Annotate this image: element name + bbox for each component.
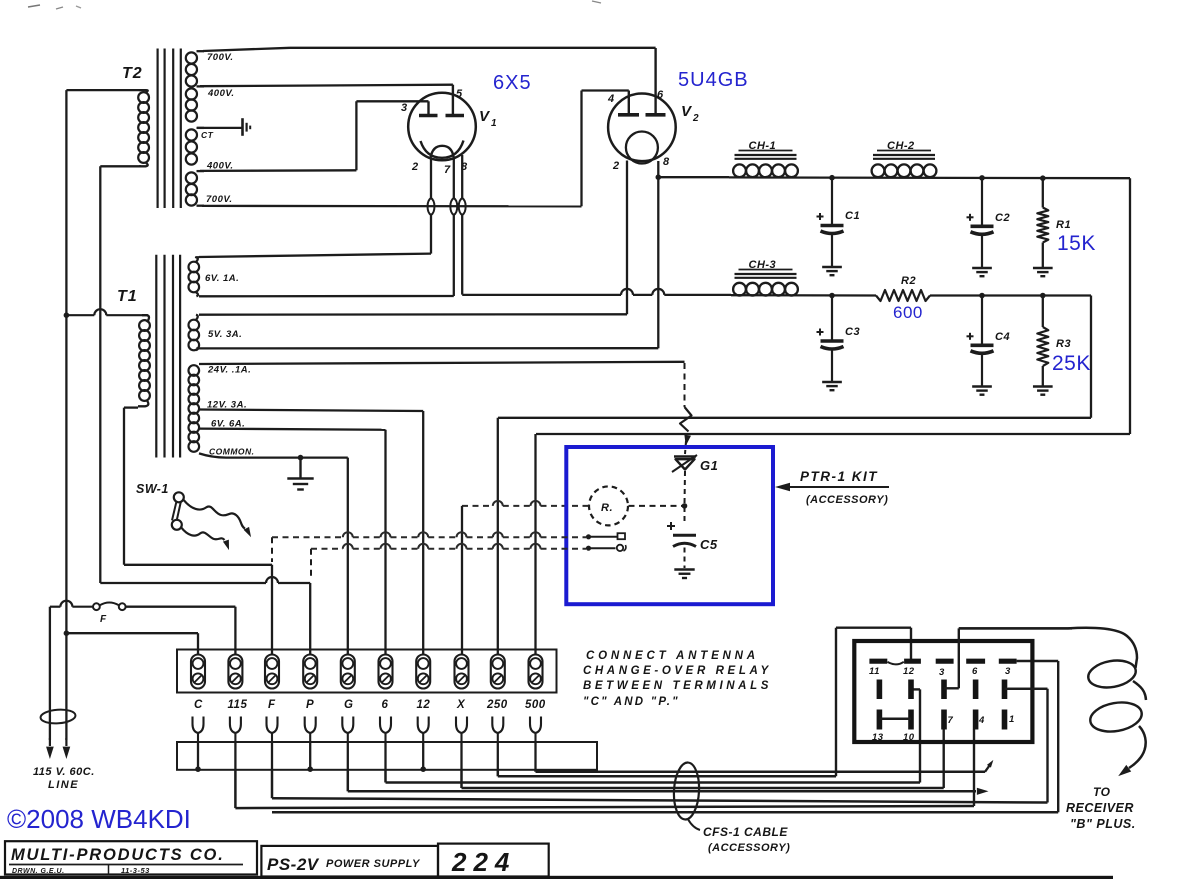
label G1 (700, 458, 718, 473)
tube V1 heater (421, 141, 464, 158)
choke CH-1 (733, 140, 798, 177)
junction dot common ground (298, 455, 304, 461)
cable box verticals (198, 742, 536, 770)
wire rail2 R2 right (930, 294, 1091, 296)
svg-text:"B" PLUS.: "B" PLUS. (1070, 817, 1136, 831)
wire V2 pin8 to 5V3A bottom (199, 347, 658, 349)
wire 500 to cable (536, 759, 996, 772)
junction dot R3 (1040, 293, 1046, 299)
wire fuse to 115 terminal (126, 607, 236, 654)
wire 250V right frame (498, 296, 1091, 418)
node CT tap (197, 128, 214, 140)
label 15K blue (1057, 232, 1096, 255)
node 400V lower tap (197, 160, 234, 171)
capacitor C2 (967, 178, 1011, 267)
hop V1 pin7 (450, 198, 457, 215)
wire dashed F to upper contact (272, 532, 586, 562)
note connect antenna (583, 650, 772, 708)
transformer T2 label (122, 65, 143, 82)
transformer T1 label (117, 288, 138, 305)
transformer T1 6V1A winding (189, 257, 200, 296)
svg-text:11-3-53: 11-3-53 (121, 866, 150, 875)
label TO RECEIVER B PLUS (1066, 785, 1136, 831)
svg-text:4: 4 (607, 93, 615, 105)
wire G into cable (348, 770, 989, 795)
wire 500V right frame (536, 178, 1130, 434)
svg-text:CT: CT (201, 130, 214, 140)
wire to C terminal (66, 633, 198, 654)
label 6V 6A (211, 419, 245, 430)
cable CFS-1 loop (673, 762, 701, 830)
svg-text:250: 250 (486, 699, 508, 711)
wire dashed node to C5 (684, 507, 686, 522)
node 700V top tap (197, 51, 234, 63)
label 5U4GB blue (678, 69, 749, 91)
label C5 (700, 537, 718, 552)
connector block outline (854, 641, 1032, 742)
wire T1 primary to F (124, 565, 272, 654)
junction dot C3 (829, 293, 835, 299)
svg-text:500: 500 (525, 699, 546, 711)
accessory box blue (566, 447, 773, 604)
wire V1 pin2 to 6V1A (199, 254, 431, 257)
scan marks (28, 1, 601, 9)
svg-text:MULTI-PRODUCTS CO.: MULTI-PRODUCTS CO. (11, 846, 225, 864)
wire top HV rail (203, 48, 656, 51)
svg-text:G: G (344, 699, 353, 711)
svg-text:24V. .1A.: 24V. .1A. (207, 365, 251, 376)
svg-text:5V. 3A.: 5V. 3A. (208, 329, 242, 340)
bottom edge bar (0, 876, 1113, 879)
capacitor C1 (817, 178, 861, 267)
svg-text:P: P (306, 699, 314, 711)
node 700V bottom tap (197, 194, 233, 206)
wire V1 pin7 down (453, 158, 455, 296)
wire CH-3 left (462, 289, 731, 295)
tube V1 pin labels (401, 88, 468, 176)
wire T1 primary top entry (66, 309, 148, 315)
wire top pin3 run (272, 661, 1058, 812)
junction dot C2 (979, 175, 985, 181)
wire dashed P to lower contact (311, 544, 586, 580)
wire dashed G1 to node (684, 471, 687, 504)
label 6V 1A (205, 273, 239, 284)
ground C5 (674, 570, 694, 579)
svg-text:F: F (100, 614, 107, 625)
relay contact upper (586, 533, 625, 539)
wire B plus riser (959, 628, 1072, 688)
label copyright blue (7, 804, 191, 834)
wire T2 primary bottom (100, 165, 141, 167)
svg-text:3: 3 (939, 667, 945, 678)
wire X terminal drop (461, 506, 463, 654)
switch SW-1 wiper 2 (181, 528, 232, 552)
terminal strip box (177, 650, 557, 693)
svg-text:115 V. 60C.: 115 V. 60C. (33, 766, 95, 778)
svg-text:600: 600 (893, 303, 923, 322)
svg-text:CONNECT ANTENNA: CONNECT ANTENNA (586, 650, 759, 662)
wire 24V dashed drop (684, 363, 686, 407)
surge gap arrow (680, 407, 692, 446)
junction dot R1 (1040, 175, 1046, 181)
wire dashed relay to node (629, 505, 683, 507)
label 115V 60C LINE (33, 766, 95, 791)
wire 250 terminal drop (497, 418, 499, 654)
svg-text:2: 2 (411, 161, 419, 173)
wire left rail down (65, 90, 67, 633)
svg-text:R3: R3 (1056, 338, 1071, 350)
wire T2 primary to P (100, 577, 310, 654)
svg-text:©2008 WB4KDI: ©2008 WB4KDI (7, 804, 191, 834)
wire V2 pin2 to 5V3A top (199, 313, 627, 316)
transformer T2 core (158, 49, 181, 209)
switch SW-1 poles (172, 492, 184, 530)
resistor R3 (1037, 296, 1071, 386)
svg-text:C2: C2 (995, 212, 1010, 224)
svg-text:10: 10 (903, 732, 915, 743)
svg-text:25K: 25K (1052, 352, 1091, 375)
svg-text:5: 5 (456, 88, 463, 100)
svg-text:115: 115 (228, 699, 248, 711)
svg-text:T2: T2 (122, 65, 143, 82)
wire 500 terminal drop (534, 434, 536, 654)
svg-text:F: F (268, 699, 276, 711)
connector top pins (869, 659, 1016, 664)
ground common (287, 458, 313, 490)
wire 6 to pin10 (386, 689, 921, 782)
wire dashed relay to X (462, 501, 589, 506)
PTR-1 KIT arrow (775, 483, 889, 491)
svg-text:(ACCESSORY): (ACCESSORY) (806, 494, 888, 506)
choke CH-3 (733, 259, 798, 296)
svg-text:4: 4 (978, 715, 985, 726)
wire COMMON run (199, 453, 348, 654)
wire CT to ground (197, 127, 243, 129)
connector middle pins (879, 680, 1004, 700)
wire rail1 under chokes (729, 176, 1130, 179)
svg-text:700V.: 700V. (206, 194, 232, 205)
svg-text:CFS-1 CABLE: CFS-1 CABLE (703, 825, 788, 839)
junction dot relay node (682, 503, 688, 509)
cable box dots (195, 766, 426, 772)
svg-text:COMMON.: COMMON. (209, 447, 255, 457)
connector bottom pins (879, 710, 1004, 730)
tube V1 plates (419, 85, 464, 116)
title drwn row (12, 865, 150, 876)
svg-text:PS-2V: PS-2V (267, 855, 320, 874)
svg-text:3: 3 (1005, 666, 1011, 677)
svg-text:SW-1: SW-1 (136, 482, 169, 496)
junction dot T1 primary feed (64, 312, 70, 318)
svg-text:T1: T1 (117, 288, 138, 305)
svg-text:RECEIVER: RECEIVER (1066, 801, 1134, 815)
connector pin7 hook (944, 687, 959, 689)
line cord loop (40, 708, 76, 724)
svg-text:15K: 15K (1057, 232, 1096, 255)
tube V1 envelope (408, 93, 476, 161)
transformer T2 primary winding (138, 90, 149, 166)
transformer T2 secondary winding (186, 52, 197, 205)
switch SW-1 label (136, 482, 169, 496)
connector pin labels (869, 666, 1015, 743)
label 24V .1A (207, 365, 251, 376)
svg-text:8: 8 (663, 156, 670, 168)
ground C3 (822, 382, 842, 390)
wire F to pin1 (272, 689, 1048, 803)
wire 115 to pin4 (235, 729, 974, 808)
cable forks (193, 717, 542, 743)
junction dot line to C (64, 630, 70, 636)
terminal lugs (191, 655, 543, 689)
capacitor C5 (667, 522, 696, 547)
svg-text:R1: R1 (1056, 219, 1071, 231)
wire X to pin7 (462, 729, 944, 788)
wire x100 down (99, 166, 101, 583)
svg-text:C5: C5 (700, 537, 718, 552)
svg-text:BETWEEN TERMINALS: BETWEEN TERMINALS (583, 680, 772, 692)
svg-text:6X5: 6X5 (493, 72, 532, 94)
transformer T1 LV winding (189, 365, 200, 452)
wire V2 pin8 down (657, 161, 659, 348)
label ACCESSORY (806, 494, 888, 506)
ground C1 (822, 267, 842, 275)
wire T2 primary top to left rail (66, 89, 141, 91)
choke CH-2 (872, 140, 937, 177)
svg-text:6: 6 (382, 699, 389, 711)
tube V2 heater loop (626, 132, 658, 164)
connector pin13-10 link (879, 718, 911, 721)
ground R3 (1033, 387, 1053, 395)
svg-text:2: 2 (692, 113, 699, 124)
svg-text:13: 13 (872, 732, 884, 743)
tube V2 pin labels (607, 89, 670, 172)
svg-text:11: 11 (869, 666, 880, 677)
svg-text:7: 7 (444, 164, 451, 176)
svg-text:3: 3 (401, 102, 408, 114)
resistor R2 (876, 275, 930, 301)
wire 250 to pin12 (498, 628, 911, 777)
svg-text:5U4GB: 5U4GB (678, 69, 749, 91)
hop V1 pin2 (428, 198, 435, 215)
wire 12V tap run (199, 410, 423, 655)
ground C4 (972, 387, 992, 395)
wire V1 pin7 to 6V1A bottom (199, 295, 454, 298)
cable bundle box (177, 742, 597, 770)
svg-text:X: X (456, 699, 466, 711)
switch SW-1 wiper 1 (184, 500, 254, 539)
label COMMON (209, 447, 255, 457)
title box ps2v (261, 846, 438, 877)
transformer T1 core (156, 255, 180, 458)
svg-text:1: 1 (1009, 714, 1015, 725)
svg-text:2: 2 (612, 160, 620, 172)
svg-text:DRWN. G.E.U.: DRWN. G.E.U. (12, 868, 65, 875)
wire 24V tap run (199, 362, 685, 364)
label 12V 3A (207, 400, 247, 411)
title ps2v text (267, 855, 421, 874)
wire line cord 1 (49, 607, 51, 740)
wire fuse left (50, 601, 93, 607)
svg-text:224: 224 (451, 847, 516, 877)
title number 224 (451, 847, 516, 877)
fuse F (93, 603, 126, 626)
capacitor C3 (817, 296, 861, 383)
line cord arrow 2 (63, 738, 71, 759)
svg-text:LINE: LINE (48, 779, 79, 791)
wire 6V tap run (199, 429, 386, 654)
wire V2 pin8 to CH-1 (658, 176, 729, 178)
junction dot C4 (979, 293, 985, 299)
wire dashed to G1 (685, 441, 686, 454)
svg-text:PTR-1 KIT: PTR-1 KIT (800, 469, 878, 484)
wire line cord 2 (65, 633, 67, 740)
label 600 blue (893, 303, 923, 322)
svg-text:12: 12 (417, 699, 431, 711)
title box number (438, 844, 549, 877)
ground R1 (1033, 268, 1053, 276)
transformer T1 5V3A winding (189, 315, 200, 351)
svg-text:6: 6 (972, 666, 978, 677)
svg-text:R.: R. (601, 502, 613, 514)
ground CT (243, 118, 251, 136)
title box company (5, 841, 257, 874)
label 25K blue (1052, 352, 1091, 375)
cable coil to receiver (959, 628, 1146, 780)
svg-text:POWER SUPPLY: POWER SUPPLY (326, 858, 421, 870)
terminal labels (194, 699, 546, 711)
wire 400V lower to V1 pin3 (200, 101, 429, 171)
svg-text:1: 1 (491, 118, 497, 129)
junction dot V2 pin8 (656, 174, 662, 180)
wire T1 primary bottom down (124, 408, 138, 565)
resistor R1 (1037, 178, 1071, 267)
svg-text:6V. 1A.: 6V. 1A. (205, 273, 239, 284)
relay R coil (589, 486, 628, 525)
title company text (11, 846, 225, 864)
wire 400V top to V1 pin5 (200, 85, 453, 87)
svg-text:C4: C4 (995, 331, 1010, 343)
label 6X5 blue (493, 72, 532, 94)
wire rail2 CH3 to R2 (731, 294, 876, 297)
svg-text:"C" AND "P.": "C" AND "P." (583, 696, 680, 708)
svg-text:C1: C1 (845, 210, 860, 222)
svg-text:V: V (681, 103, 693, 120)
ground C2 (972, 268, 992, 276)
node 400V tap (197, 86, 235, 99)
tube V2 plates (618, 48, 666, 115)
connector pin1 hook (1005, 688, 1048, 690)
svg-text:7: 7 (948, 715, 954, 726)
svg-text:700V.: 700V. (207, 52, 233, 63)
svg-text:C3: C3 (845, 326, 860, 338)
junction dot C1 (829, 175, 835, 181)
svg-text:C: C (194, 699, 203, 711)
wire 700V bottom to V2 pin4 (202, 91, 629, 207)
wire V1 pin8 down (461, 155, 463, 295)
svg-text:G1: G1 (700, 458, 718, 473)
svg-text:12: 12 (903, 666, 915, 677)
line cord arrow 1 (46, 738, 54, 759)
gap G1 (672, 455, 697, 472)
svg-text:R2: R2 (901, 275, 916, 287)
relay contact lower (586, 545, 626, 551)
svg-text:V: V (479, 108, 491, 125)
svg-text:(ACCESSORY): (ACCESSORY) (708, 842, 790, 854)
connector pin jumper arc (888, 662, 904, 665)
svg-text:400V.: 400V. (207, 88, 234, 99)
tube V2 envelope (608, 94, 676, 162)
wire dashed C5 to ground (684, 548, 686, 569)
tube V2 designator (681, 103, 699, 124)
label 5V 3A (208, 329, 242, 340)
label CFS-1 CABLE (703, 825, 790, 854)
svg-text:CHANGE-OVER RELAY: CHANGE-OVER RELAY (583, 665, 772, 677)
svg-text:TO: TO (1093, 785, 1111, 799)
wire V1 pin2 down (430, 158, 432, 254)
title company underline (9, 864, 243, 866)
transformer T1 primary winding (138, 315, 150, 406)
svg-text:6: 6 (657, 89, 664, 101)
label PTR-1 KIT (800, 469, 878, 484)
wire V2 pin2 down (626, 161, 628, 315)
tube V1 designator (479, 108, 497, 129)
hop V1 pin8 (459, 198, 466, 215)
capacitor C4 (967, 296, 1011, 387)
